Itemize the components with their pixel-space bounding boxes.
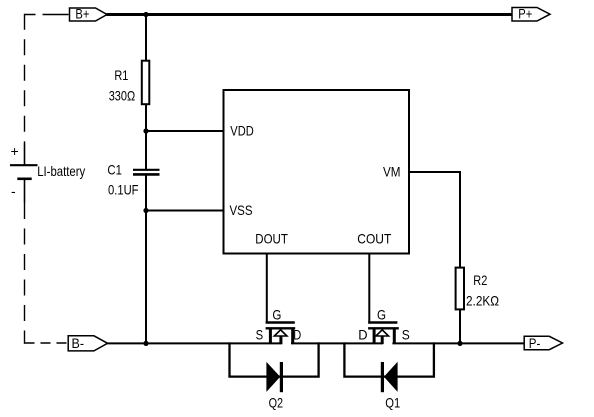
svg-text:G: G (272, 307, 281, 323)
diode: Q2 body diode (267, 362, 282, 392)
transistor Q2 (N-MOSFET) (256, 307, 302, 345)
svg-text:-: - (11, 183, 16, 199)
svg-text:S: S (256, 326, 264, 342)
wire: U1 VM pin to R2 (409, 172, 460, 268)
svg-text:Q2: Q2 (269, 394, 284, 410)
svg-text:R2: R2 (473, 272, 487, 288)
junction: bottom rail / VSS branch (143, 341, 148, 346)
wire: Q1 body-diode loop (344, 342, 434, 376)
diode: Q1 body diode (382, 362, 397, 392)
wire: U1 COUT pin to Q1 gate (368, 254, 370, 323)
wire: top rail B+ to P+ (107, 13, 512, 16)
terminal P- (524, 335, 562, 351)
battery BT1 LI-battery (10, 143, 85, 203)
svg-text:D: D (358, 326, 367, 342)
svg-text:B+: B+ (75, 6, 89, 22)
svg-text:+: + (11, 143, 19, 159)
wire: VSS node to bottom rail (145, 211, 147, 345)
wire: bottom rail Q1 source to P- (392, 342, 524, 344)
svg-text:D: D (293, 326, 301, 342)
wire: VDD node to C1 (145, 131, 147, 170)
wire: R1 to VDD node (145, 104, 147, 131)
junction: VDD node (143, 128, 148, 133)
wire: top rail to R1 (145, 15, 147, 62)
svg-text:G: G (377, 307, 386, 323)
terminal P+ (512, 6, 550, 22)
svg-text:2.2KΩ: 2.2KΩ (466, 293, 499, 309)
junction: VSS node (143, 208, 148, 213)
svg-text:P+: P+ (518, 6, 532, 22)
svg-text:P-: P- (529, 335, 541, 351)
wire: dashed battery connection bottom (to B-) (25, 203, 69, 344)
wire: R2 to bottom rail (459, 309, 461, 344)
wire: VDD node to U1 VDD pin (146, 130, 224, 132)
svg-text:R1: R1 (114, 67, 128, 83)
wire: bottom rail Q2 drain to Q1 drain (291, 342, 383, 344)
svg-text:S: S (402, 326, 410, 342)
svg-text:VSS: VSS (230, 202, 253, 218)
svg-text:Q1: Q1 (385, 394, 400, 410)
junction: top rail / R1 (143, 12, 148, 17)
wire: bottom rail B- to Q2 source (107, 342, 282, 344)
svg-text:VM: VM (383, 163, 401, 179)
wire: dashed battery connection top (to B+) (25, 14, 70, 143)
wire: Q2 body-diode loop (230, 342, 319, 376)
svg-text:VDD: VDD (230, 122, 254, 138)
svg-text:C1: C1 (107, 162, 122, 178)
capacitor C1 (107, 162, 159, 198)
svg-text:330Ω: 330Ω (109, 88, 136, 104)
wire: U1 DOUT pin to Q2 gate (266, 254, 268, 323)
wire: C1 to VSS node (145, 174, 147, 210)
IC U1 (protection IC) (224, 90, 410, 254)
svg-text:B-: B- (72, 335, 85, 351)
svg-text:DOUT: DOUT (255, 230, 288, 246)
wire: VSS node to U1 VSS pin (146, 210, 224, 212)
terminal B+ (70, 6, 108, 22)
resistor R2 (456, 268, 499, 310)
svg-text:0.1UF: 0.1UF (108, 182, 139, 198)
transistor Q1 (N-MOSFET) (358, 307, 409, 345)
resistor R1 (109, 61, 150, 104)
svg-text:COUT: COUT (357, 230, 391, 246)
junction: bottom rail / R2 (457, 341, 462, 346)
svg-text:LI-battery: LI-battery (37, 163, 85, 179)
terminal B- (68, 335, 107, 351)
